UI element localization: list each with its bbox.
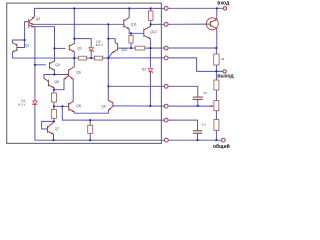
resistor Rh2 (rail58 left) bbox=[79, 56, 87, 60]
wire: Q9 base to t6 bbox=[113, 105, 166, 107]
wire: R1out bottom stub to output node bbox=[215, 65, 217, 71]
svg-text:Q6: Q6 bbox=[76, 70, 81, 74]
transistor Q1 bbox=[12, 43, 17, 53]
transistor Q12 bbox=[144, 26, 151, 39]
wire: D1 bottom to ground rail bbox=[35, 105, 166, 140]
transistors bbox=[12, 17, 218, 135]
wire: C01 bottom to ground bbox=[197, 134, 199, 141]
pot tap arrow into R3out bbox=[211, 105, 214, 107]
wire: t5 wire outside to C47 bbox=[166, 86, 198, 96]
svg-text:Q10: Q10 bbox=[121, 48, 128, 52]
svg-text:Q2: Q2 bbox=[36, 17, 41, 21]
resistor Rh1 (horizontal, t3 line) bbox=[135, 46, 145, 50]
wire: Rb bottom stub to Q7 collector node bbox=[53, 118, 55, 121]
svg-text:Q5: Q5 bbox=[54, 80, 59, 84]
node dot rail58 x108.3 bbox=[107, 57, 109, 59]
wire: Q4 base tap from D1 line bbox=[35, 64, 46, 66]
svg-text:4k: 4k bbox=[221, 57, 225, 61]
node dot Q8 base node bbox=[53, 105, 55, 107]
node dot Q10 collector tap bbox=[107, 38, 109, 40]
terminal pin 3 bbox=[164, 46, 168, 50]
svg-text:Q9: Q9 bbox=[101, 104, 106, 108]
transistor Q10 (mirrored) bbox=[112, 42, 118, 52]
wire: Q12 collector to t2 node bbox=[150, 24, 152, 26]
wire: Rin1 bottom stub bbox=[150, 20, 152, 24]
wire: Q8 base wire bbox=[54, 105, 69, 107]
transistor Q4 bbox=[50, 61, 55, 70]
zener diode D2 bbox=[89, 47, 94, 52]
wire: R3out to R4out stub bbox=[215, 111, 217, 120]
wire: top supply rail y=8.4 bbox=[35, 8, 167, 16]
wire: Q3 emitter / Q6 collector vertical bbox=[73, 52, 75, 58]
svg-text:Q3: Q3 bbox=[77, 46, 82, 50]
wire: D1 branch down from e2 wire bbox=[34, 27, 36, 101]
wire: Rh1 right to t3 bbox=[145, 47, 166, 49]
wire: Rin2 top stub bbox=[130, 33, 132, 35]
node dot input wire bbox=[216, 7, 218, 9]
resistor R4out bbox=[214, 120, 219, 131]
wire: R8 top stub bbox=[89, 120, 91, 125]
transistor Qext (input, with circle) bbox=[206, 18, 218, 30]
node dot ground Q7 bbox=[53, 139, 55, 141]
wire: Q7 emitter to ground rail bbox=[53, 134, 55, 140]
resistor Ra bbox=[51, 93, 56, 102]
wire: node89.7 right to Q6 left emitter bbox=[54, 79, 64, 90]
node dot Q3 base bbox=[53, 48, 55, 50]
node dot node75 bbox=[54, 74, 56, 76]
wire: R2out to R3out stub bbox=[215, 90, 217, 101]
node dot C47 bottom bbox=[197, 105, 199, 107]
transistor Q8 bbox=[69, 101, 75, 112]
transistor Q6 (dual emitter) bbox=[64, 67, 74, 80]
wire: t2 to ext transistor base bbox=[166, 23, 210, 25]
wire: rail58 right segment to t4 bbox=[103, 57, 166, 59]
terminal pin 4 bbox=[164, 56, 168, 60]
terminal common bbox=[221, 138, 225, 142]
IC package box bbox=[7, 3, 162, 143]
terminal pin 7 bbox=[164, 118, 168, 122]
node dot t7 R8 bbox=[89, 119, 91, 121]
node dot t2 node x150.6 bbox=[150, 24, 152, 26]
resistors bbox=[51, 11, 219, 133]
svg-text:6.3 V: 6.3 V bbox=[18, 103, 26, 107]
wire: Q12 emitter long vertical to D3 bbox=[149, 39, 151, 68]
wire: t2 wire bbox=[151, 23, 166, 25]
terminal pin 5 bbox=[164, 84, 168, 88]
svg-text:Q1: Q1 bbox=[25, 43, 30, 47]
resistor R8 bbox=[88, 125, 93, 133]
node dot Rh1 left bbox=[130, 47, 132, 49]
wire: Ra bottom to node106 bbox=[53, 102, 55, 106]
wire: R8 bottom stub bbox=[89, 133, 91, 140]
svg-text:общий: общий bbox=[213, 143, 230, 150]
node dot top rail x74.3 bbox=[73, 8, 75, 10]
node dot x62.3 node bbox=[61, 105, 63, 107]
terminal pin 2 bbox=[164, 22, 168, 26]
node dot Q7 collector bbox=[53, 121, 55, 123]
resistor Rb bbox=[51, 110, 56, 119]
svg-text:Q12: Q12 bbox=[150, 30, 157, 34]
wire: R2out top stub bbox=[215, 71, 217, 80]
node dot t6 D3 bbox=[150, 105, 152, 107]
node dot ground R8 bbox=[89, 139, 91, 141]
wire: ext transistor emitter down to t3 node bbox=[216, 28, 218, 48]
wire: t4 wire outside to output node bbox=[166, 58, 223, 72]
svg-text:Q4: Q4 bbox=[55, 63, 60, 67]
node dot ground C01 bbox=[197, 139, 199, 141]
terminal pin 6 bbox=[164, 104, 168, 108]
svg-text:Q7: Q7 bbox=[55, 127, 60, 131]
transistor Q3 bbox=[69, 43, 74, 52]
wire: long vertical x=108.3 rail2 to Q9 collector bbox=[107, 24, 109, 100]
wire: node75 horizontal bbox=[44, 74, 69, 76]
wire: D3 bottom to t6 node bbox=[149, 73, 151, 106]
wire: node75 down to Q5 collector bbox=[43, 75, 45, 79]
terminal output bbox=[223, 70, 226, 73]
wire: Q6 right emitter down to Q8 collector bbox=[72, 79, 74, 101]
wire: Q2 e2 branch right and down to Q3 base / Q4 bbox=[34, 27, 55, 62]
wire: rail2 Q2 emitter to Q11 base y=24.3 bbox=[33, 23, 123, 25]
wire: t5 wire from vertical bbox=[108, 85, 166, 87]
wire: t3 wire outside bbox=[166, 47, 217, 49]
node dot top rail x129.2 bbox=[128, 8, 130, 10]
resistor Rh3 (rail58 right) bbox=[95, 56, 103, 60]
wire: Rin2 bottom stub bbox=[130, 43, 132, 48]
wire: Q7 base loop bbox=[42, 121, 54, 129]
wire: node89.7 down to Ra bbox=[53, 90, 55, 93]
resistor Rin2 (x131) bbox=[129, 36, 133, 44]
node dot rail2 x108.3 bbox=[107, 23, 109, 25]
zener diode D3 bbox=[148, 68, 153, 73]
wire: Q3 collector vertical bbox=[73, 8, 75, 43]
wire: Q1 emitter to rail58 bbox=[11, 52, 13, 58]
wire: D2 top tap to Q3 collector line bbox=[74, 39, 91, 47]
wire: Rh1 left stub dot to resistor bbox=[131, 47, 135, 49]
svg-text:D3: D3 bbox=[142, 68, 146, 72]
wire: Q11 collector vertical bbox=[128, 8, 130, 17]
wire: Q3 base from dot bbox=[54, 47, 65, 49]
node dot Q4 base tap bbox=[34, 64, 36, 66]
node dot output node bbox=[216, 71, 218, 73]
terminal input bbox=[223, 7, 226, 10]
wire: Rin1 top stub bbox=[150, 8, 152, 11]
terminal pin 1 bbox=[164, 6, 168, 10]
svg-text:вход: вход bbox=[217, 1, 230, 7]
node dot D2 top tap bbox=[73, 38, 75, 40]
wire: Q4 emitter to node75 bbox=[53, 70, 55, 74]
node dot Rh1 right x150.4 bbox=[150, 47, 152, 49]
svg-text:0.1: 0.1 bbox=[202, 122, 207, 126]
node dot node89.7 bbox=[53, 89, 55, 91]
transistor Q2 (dual emitter) bbox=[29, 17, 35, 28]
wire: Q2 base down to Q1 bbox=[17, 22, 29, 48]
wire: Q1 collector loop bbox=[12, 40, 24, 43]
terminals (IC pins) bbox=[164, 6, 226, 142]
resistor R3out (with tap) bbox=[214, 101, 219, 111]
transistor Q9 (mirrored) bbox=[108, 100, 113, 110]
resistor Rin1 (Q12 load) bbox=[148, 11, 153, 20]
wire: D2 bottom to rail58 bbox=[90, 51, 92, 58]
svg-text:6.3 V: 6.3 V bbox=[96, 43, 104, 47]
terminal pin 8 bbox=[165, 138, 169, 142]
wire: Q8 emitter U loop to Q9 emitter bbox=[74, 110, 108, 113]
wire: t1 to input terminal bbox=[166, 7, 223, 9]
node dot ground R4out bbox=[216, 139, 218, 141]
wire: Q10 base to Rh1 bbox=[118, 47, 131, 49]
svg-text:Q8: Q8 bbox=[76, 104, 81, 108]
svg-text:47: 47 bbox=[203, 91, 207, 95]
svg-text:Q11: Q11 bbox=[131, 22, 137, 26]
node dot t5 start bbox=[107, 85, 109, 87]
wire: rail58 mid segment bbox=[87, 57, 95, 59]
node dot t3 ext emitter bbox=[216, 47, 218, 49]
wire: t6 wire outside to pot tap bbox=[166, 105, 211, 107]
wire: Q10 collector L bbox=[108, 39, 115, 43]
transistor Q7 bbox=[48, 122, 54, 134]
wire: Q10 emitter to rail58 bbox=[108, 53, 112, 58]
capacitor C47 bbox=[193, 97, 203, 99]
wire: external transistor collector up bbox=[216, 8, 218, 19]
wire: R4out bottom stub to ground bbox=[215, 131, 217, 141]
resistor R2out bbox=[214, 80, 219, 90]
resistor R1out bbox=[214, 54, 219, 65]
transistor Q5 bbox=[44, 78, 54, 88]
wire: Q11 emitter down and right to Q12 base bbox=[129, 29, 144, 33]
zener diode D1 bbox=[33, 101, 38, 105]
wire: R1out top stub bbox=[215, 48, 217, 54]
node dot rail58 Q3/Q6 bbox=[73, 57, 75, 59]
capacitor C01 bbox=[193, 131, 202, 133]
wire: node106 down and t7 wire bbox=[62, 106, 166, 120]
svg-text:выход: выход bbox=[217, 73, 234, 79]
wire: t7 wire outside to C01 bbox=[166, 120, 198, 130]
node dot top rail x150.7 bbox=[150, 8, 152, 10]
node dot Q12 base wire x131 bbox=[130, 32, 132, 34]
wire: Rb top stub bbox=[53, 106, 55, 109]
wire: ground rail outside to common terminal bbox=[166, 139, 223, 141]
node dot Q1 loop bbox=[24, 39, 26, 41]
transistor Q11 bbox=[124, 17, 130, 29]
node dot rail58 D2 bbox=[90, 57, 92, 59]
wire: rail58 left segment bbox=[12, 57, 78, 59]
wire: Q5 emitter down to node89.7 bbox=[53, 88, 55, 90]
wire: C47 bottom to t6 wire bbox=[197, 100, 199, 106]
